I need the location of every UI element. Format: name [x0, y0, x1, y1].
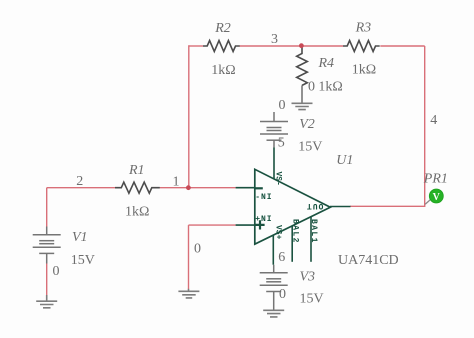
- svg-text:R1: R1: [128, 163, 145, 178]
- svg-text:BAL1: BAL1: [309, 219, 318, 244]
- svg-text:15V: 15V: [71, 253, 95, 268]
- svg-text:1kΩ: 1kΩ: [211, 63, 235, 78]
- svg-text:V3: V3: [300, 270, 316, 285]
- svg-text:0: 0: [279, 287, 286, 302]
- svg-text:OUT: OUT: [306, 201, 323, 210]
- svg-text:VS+: VS+: [273, 225, 282, 240]
- svg-text:U1: U1: [336, 153, 353, 168]
- svg-text:15V: 15V: [298, 140, 322, 155]
- svg-text:1kΩ: 1kΩ: [352, 62, 376, 77]
- svg-text:+NI: +NI: [255, 215, 272, 224]
- svg-text:VS-: VS-: [273, 172, 282, 186]
- svg-text:V2: V2: [299, 117, 315, 132]
- svg-text:UA741CD: UA741CD: [338, 253, 399, 268]
- svg-text:0: 0: [279, 98, 286, 113]
- svg-text:15V: 15V: [300, 291, 324, 306]
- svg-text:V: V: [433, 192, 441, 203]
- svg-text:V1: V1: [72, 230, 88, 245]
- svg-text:0: 0: [308, 79, 315, 94]
- svg-text:PR1: PR1: [423, 172, 448, 187]
- svg-text:R2: R2: [214, 21, 231, 36]
- svg-text:5: 5: [278, 135, 285, 150]
- svg-text:0: 0: [53, 264, 60, 279]
- svg-text:6: 6: [278, 250, 285, 265]
- svg-text:R4: R4: [318, 56, 335, 71]
- svg-text:1: 1: [173, 174, 180, 189]
- svg-text:4: 4: [430, 113, 437, 128]
- svg-text:-NI: -NI: [255, 193, 272, 202]
- svg-text:1kΩ: 1kΩ: [125, 205, 149, 220]
- svg-text:2: 2: [76, 174, 83, 189]
- svg-text:0: 0: [194, 241, 201, 256]
- svg-text:3: 3: [271, 32, 278, 47]
- svg-text:R3: R3: [355, 21, 372, 36]
- svg-text:BAL2: BAL2: [290, 219, 299, 244]
- svg-text:1kΩ: 1kΩ: [318, 79, 342, 94]
